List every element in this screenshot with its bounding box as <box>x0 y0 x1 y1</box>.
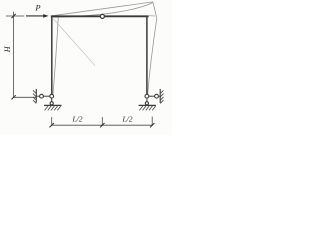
left lower link hinge circle <box>50 102 53 105</box>
left wall hatching <box>33 90 36 103</box>
right lower link hinge circle <box>145 102 148 105</box>
right link hinge circle at wall <box>155 94 159 98</box>
right column base hinge circle <box>145 94 149 98</box>
dimension H extension bottom <box>14 96 37 98</box>
svg-text:L/2: L/2 <box>71 114 82 123</box>
right ground line <box>139 104 156 106</box>
beam <box>51 15 149 17</box>
column left <box>51 16 53 95</box>
svg-text:L/2: L/2 <box>121 114 132 123</box>
left horizontal link bar <box>43 95 49 97</box>
column right <box>146 16 148 95</box>
deflected shape line left column <box>53 16 58 95</box>
deflected shape right column <box>148 18 157 95</box>
tick right <box>150 123 154 127</box>
left ground hatching <box>45 106 61 111</box>
load arrow P <box>26 14 49 18</box>
span dimension line <box>52 124 153 126</box>
tick top of H <box>12 14 16 18</box>
witness line middle <box>101 117 103 126</box>
right horizontal link stub to wall <box>158 95 160 97</box>
dimension H extension top <box>6 15 25 17</box>
right support wall <box>159 89 161 103</box>
deflected shape lower curve B over hinge to peak <box>53 3 153 18</box>
deflected shape upper line A corner to peak <box>52 2 153 16</box>
witness line right <box>151 117 153 126</box>
right horizontal link bar <box>149 95 155 97</box>
left horizontal link stub to wall <box>36 95 39 97</box>
left vertical link bar <box>51 98 53 102</box>
right ground hatching <box>139 106 155 111</box>
right wall hatching <box>160 90 163 103</box>
deflected shape drop from peak <box>153 2 157 19</box>
faint diagonal construction line <box>53 19 95 66</box>
hinge at beam center <box>100 14 104 18</box>
witness line left <box>51 117 53 126</box>
svg-text:P: P <box>34 3 40 13</box>
tick bottom of H <box>12 95 16 99</box>
left column base hinge circle <box>50 94 54 98</box>
deflected beam stub at right corner <box>149 15 155 17</box>
tick left <box>50 123 54 127</box>
left link hinge circle at wall <box>40 94 44 98</box>
right vertical link bar <box>146 98 148 102</box>
tick middle <box>100 123 104 127</box>
left ground line <box>44 104 62 106</box>
left support wall <box>35 89 37 103</box>
dimension H line <box>13 12 15 98</box>
